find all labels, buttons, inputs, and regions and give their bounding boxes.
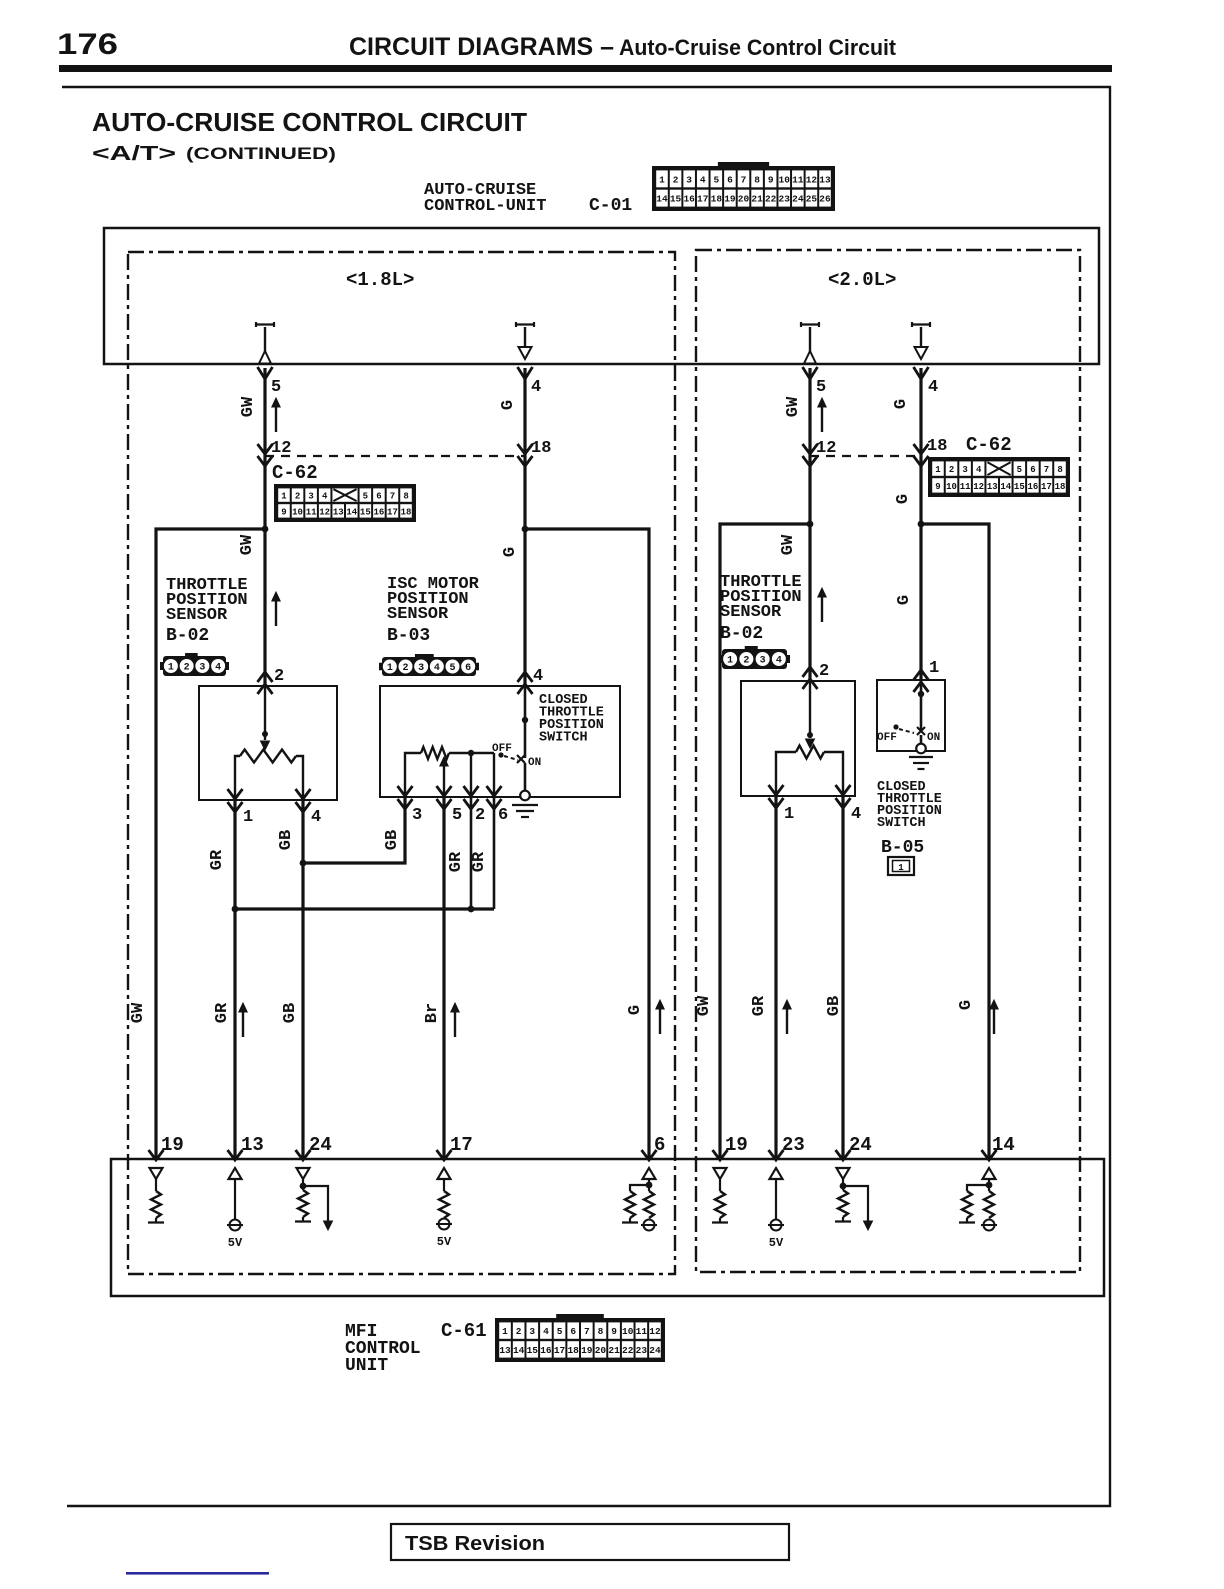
svg-text:18: 18 (711, 194, 723, 205)
ISC motor position sensor box (380, 686, 620, 797)
svg-text:14: 14 (346, 507, 357, 517)
svg-text:GW: GW (239, 396, 258, 417)
flow arrow on G lower (659, 1007, 661, 1034)
pin 2 chevrons ISC (464, 786, 479, 796)
wire GB from ISC pin 3 (303, 797, 405, 863)
svg-text:3: 3 (308, 492, 313, 502)
svg-text:GW: GW (238, 534, 257, 555)
switch blade dashed 2.0L (899, 729, 914, 733)
pin 4 chevrons (296, 789, 311, 799)
svg-text:17: 17 (1041, 482, 1052, 492)
svg-text:8: 8 (598, 1326, 604, 1337)
branch node GW 2.0L (807, 521, 814, 528)
svg-text:3: 3 (962, 465, 967, 475)
ground symbol 2.0L (909, 756, 933, 758)
svg-text:24: 24 (649, 1345, 661, 1356)
wire G 1.8L from pin 4 (523, 368, 526, 686)
svg-text:GR: GR (208, 849, 227, 870)
ISC wiper arrow (443, 766, 445, 797)
svg-text:GB: GB (825, 996, 844, 1016)
svg-text:5: 5 (557, 1326, 563, 1337)
svg-text:4: 4 (434, 663, 440, 674)
svg-text:G: G (957, 1000, 976, 1010)
pin 4 of C-01 (914, 367, 929, 379)
svg-text:G: G (895, 595, 914, 605)
wire branch GW far left 2.0L (720, 524, 810, 1160)
svg-text:5: 5 (449, 663, 455, 674)
svg-text:12: 12 (973, 482, 984, 492)
svg-text:GW: GW (129, 1002, 148, 1023)
svg-text:18: 18 (927, 437, 947, 456)
svg-text:23: 23 (636, 1345, 648, 1356)
MFI 5V source pin 13 1.8L (229, 1168, 242, 1179)
svg-text:2: 2 (673, 174, 679, 185)
wire G inside ISC box (524, 686, 527, 758)
svg-text:19: 19 (161, 1134, 184, 1156)
svg-text:9: 9 (281, 507, 286, 517)
svg-text:4: 4 (311, 808, 321, 827)
pin 4 chevrons of ISC (518, 672, 533, 682)
MFI pin 19 chevron (149, 1150, 164, 1160)
svg-text:GW: GW (695, 995, 714, 1016)
svg-text:12: 12 (649, 1326, 661, 1337)
svg-text:1: 1 (929, 659, 939, 678)
pin 18 chevrons (518, 444, 533, 454)
control unit internal stub at x=921 (912, 322, 930, 327)
svg-text:1: 1 (898, 863, 904, 873)
control unit internal stub at x=810 (801, 322, 819, 327)
svg-text:8: 8 (1057, 465, 1062, 475)
svg-text:5V: 5V (228, 1236, 243, 1250)
svg-text:9: 9 (935, 482, 940, 492)
dash-dot box 1.8L (128, 252, 675, 1274)
wire branch G to right (525, 529, 649, 1160)
MFI resistor and output pin 24 1.8L (297, 1168, 310, 1179)
svg-text:5: 5 (363, 492, 368, 502)
wire GW 1.8L from pin 5 (263, 368, 266, 686)
svg-text:1: 1 (935, 465, 941, 475)
svg-text:3: 3 (199, 663, 205, 674)
connector crossing C-62 dashed line 1.8L (265, 455, 525, 457)
svg-text:21: 21 (751, 194, 763, 205)
connector crossing C-62 dashed line 2.0L (810, 455, 921, 457)
junction dot pin2 lead (468, 750, 474, 756)
MFI pin 23 chevron 2.0L (769, 1150, 784, 1160)
branch node on G at y529 (522, 526, 529, 533)
svg-text:B-02: B-02 (166, 626, 209, 646)
svg-text:19: 19 (724, 194, 736, 205)
svg-text:16: 16 (373, 507, 384, 517)
connector C-62 1.8L (274, 484, 416, 522)
svg-text:16: 16 (683, 194, 695, 205)
svg-text:CIRCUIT DIAGRAMS –: CIRCUIT DIAGRAMS – (349, 33, 614, 61)
svg-text:7: 7 (1044, 465, 1049, 475)
wire Br from ISC pin 5 (442, 797, 445, 1160)
svg-text:4: 4 (700, 174, 706, 185)
wire G 2.0L from pin 4 (919, 368, 922, 680)
svg-text:C-01: C-01 (589, 196, 632, 216)
throttle position sensor box 2.0L (741, 681, 855, 796)
potentiometer resistor TPS 1.8L (240, 750, 296, 763)
potentiometer resistor TPS 2.0L (796, 746, 824, 759)
svg-text:24: 24 (309, 1134, 332, 1156)
svg-text:B-02: B-02 (720, 624, 763, 644)
ground circle (520, 791, 530, 801)
connector B-05 (888, 857, 914, 875)
svg-text:4: 4 (543, 1326, 549, 1337)
svg-text:3: 3 (418, 663, 424, 674)
potentiometer wiper TPS 1.8L (264, 686, 266, 740)
pin 2 chevrons B-02 2.0L (803, 667, 818, 677)
MFI pin 13 chevron (228, 1150, 243, 1160)
junction bus GR at y909 (235, 907, 494, 910)
wire G inside B-05 (920, 680, 923, 731)
svg-text:GW: GW (784, 396, 803, 417)
svg-text:B-03: B-03 (387, 626, 430, 646)
svg-text:11: 11 (792, 174, 804, 185)
svg-text:CONTROL-UNIT: CONTROL-UNIT (424, 197, 546, 216)
pin 5 chevrons (437, 786, 452, 796)
svg-text:13: 13 (241, 1134, 264, 1156)
junction dot B-05 (918, 691, 924, 697)
svg-text:2: 2 (516, 1326, 522, 1337)
ISC resistor (421, 747, 449, 759)
svg-text:13: 13 (987, 482, 998, 492)
svg-text:14: 14 (992, 1134, 1015, 1156)
svg-text:SWITCH: SWITCH (877, 816, 926, 831)
svg-text:16: 16 (1027, 482, 1038, 492)
svg-text:18: 18 (401, 507, 412, 517)
svg-text:Auto-Cruise Control Circuit: Auto-Cruise Control Circuit (619, 35, 897, 60)
MFI internal resistor pin 19 2.0L (714, 1168, 727, 1179)
svg-text:18: 18 (1055, 482, 1066, 492)
connector C-61 (495, 1318, 665, 1362)
pin 6 lead (493, 753, 495, 797)
connector B-03 (379, 663, 383, 671)
svg-text:12: 12 (806, 174, 818, 185)
svg-text:4: 4 (776, 656, 782, 667)
svg-text:23: 23 (782, 1134, 805, 1156)
svg-text:5V: 5V (769, 1236, 784, 1250)
wire GR from ISC pin 2 (470, 797, 473, 909)
svg-text:16: 16 (540, 1345, 552, 1356)
svg-text:4: 4 (531, 378, 541, 397)
blue scan mark (126, 1572, 269, 1575)
ground circle 2.0L (916, 744, 926, 754)
pin 18 chevrons 2.0L (914, 444, 929, 454)
connector C-62 2.0L (928, 457, 1070, 497)
svg-text:19: 19 (581, 1345, 593, 1356)
flow arrow on GW 2.0L (821, 405, 823, 432)
pin 1 chevrons B-05 (914, 670, 929, 680)
svg-text:GR: GR (750, 995, 769, 1016)
svg-text:15: 15 (360, 507, 371, 517)
page frame (62, 87, 1110, 1506)
switch off contact (498, 752, 503, 757)
svg-text:GR: GR (447, 851, 466, 872)
switch off contact 2.0L (893, 724, 898, 729)
svg-text:G: G (892, 399, 911, 409)
svg-text:2: 2 (819, 662, 829, 681)
svg-text:6: 6 (654, 1134, 665, 1156)
svg-text:17: 17 (697, 194, 709, 205)
svg-text:10: 10 (292, 507, 303, 517)
svg-text:5: 5 (1017, 465, 1022, 475)
svg-text:1: 1 (784, 805, 794, 824)
svg-text:3: 3 (529, 1326, 535, 1337)
connector C-01 (652, 166, 835, 211)
switch blade dashed (504, 756, 518, 760)
svg-text:14: 14 (656, 194, 668, 205)
svg-text:SENSOR: SENSOR (166, 606, 228, 625)
svg-text:13: 13 (333, 507, 344, 517)
wire to ground circle (524, 763, 527, 791)
pin 1 chevrons (228, 789, 243, 799)
svg-text:18: 18 (531, 439, 551, 458)
svg-text:2: 2 (475, 806, 485, 825)
svg-text:G: G (894, 494, 913, 504)
svg-text:5: 5 (452, 806, 462, 825)
wire branch G right 2.0L (921, 524, 989, 1160)
junction dot GR left (232, 906, 239, 913)
svg-text:C-61: C-61 (441, 1320, 487, 1342)
svg-text:5: 5 (713, 174, 719, 185)
MFI dual resistor pin 6 1.8L (643, 1168, 656, 1179)
MFI control unit box (111, 1159, 1104, 1296)
svg-text:4: 4 (533, 667, 543, 686)
svg-text:G: G (499, 400, 518, 410)
switch on contact X 2.0L (917, 727, 925, 735)
svg-text:4: 4 (215, 663, 221, 674)
svg-text:GR: GR (213, 1002, 232, 1023)
svg-text:<1.8L>: <1.8L> (346, 269, 414, 291)
svg-text:8: 8 (754, 174, 760, 185)
svg-text:1: 1 (168, 663, 174, 674)
svg-text:TSB Revision: TSB Revision (405, 1533, 545, 1555)
throttle position sensor box 1.8L (199, 686, 337, 800)
svg-text:9: 9 (768, 174, 774, 185)
pin 3 chevrons (398, 786, 413, 796)
svg-text:3: 3 (412, 806, 422, 825)
svg-text:1: 1 (727, 656, 733, 667)
svg-text:OFF: OFF (877, 732, 897, 744)
dash-dot box 2.0L (696, 250, 1080, 1272)
pin 4 chevrons 2.0L (836, 785, 851, 795)
svg-text:<2.0L>: <2.0L> (828, 269, 896, 291)
pin 5 of C-01 (258, 367, 273, 379)
svg-text:6: 6 (465, 663, 471, 674)
svg-text:8: 8 (403, 492, 408, 502)
flow arrow on GW 2.0L near sensor (821, 595, 823, 622)
svg-text:2: 2 (402, 663, 408, 674)
svg-text:14: 14 (1000, 482, 1011, 492)
svg-text:SENSOR: SENSOR (387, 605, 449, 624)
wire from ISC pin 6 (493, 797, 496, 909)
svg-text:2: 2 (949, 465, 954, 475)
svg-text:10: 10 (779, 174, 791, 185)
svg-text:17: 17 (554, 1345, 566, 1356)
svg-text:<A/T>: <A/T> (92, 143, 176, 165)
svg-text:SWITCH: SWITCH (539, 731, 588, 746)
MFI pin 17 chevron (437, 1150, 452, 1160)
svg-text:1: 1 (502, 1326, 508, 1337)
flow arrow on GW near sensor (275, 599, 277, 626)
svg-text:7: 7 (741, 174, 747, 185)
wire GB from TPS pin 4 2.0L (841, 796, 844, 1160)
MFI internal resistor pin 19 1.8L (150, 1168, 163, 1179)
potentiometer wiper TPS 2.0L (809, 681, 811, 738)
MFI pin 24 chevron (296, 1150, 311, 1160)
wire GR from TPS pin 1 (233, 800, 236, 1160)
svg-text:3: 3 (686, 174, 692, 185)
svg-text:21: 21 (608, 1345, 620, 1356)
svg-text:4: 4 (851, 805, 861, 824)
svg-text:17: 17 (450, 1134, 473, 1156)
svg-text:176: 176 (57, 28, 118, 61)
flow arrow GR 2.0L (786, 1007, 788, 1034)
MFI dual resistor pin 14 2.0L (983, 1168, 996, 1179)
TSB revision box (391, 1524, 789, 1560)
junction dot GB join (300, 860, 307, 867)
svg-text:22: 22 (622, 1345, 634, 1356)
svg-text:12: 12 (319, 507, 330, 517)
svg-text:G: G (626, 1005, 645, 1015)
svg-text:11: 11 (960, 482, 971, 492)
svg-text:25: 25 (806, 194, 818, 205)
svg-text:14: 14 (513, 1345, 525, 1356)
ground symbol 1.8L (512, 804, 538, 806)
control unit internal stub at x=525 (516, 322, 534, 327)
svg-text:2: 2 (295, 492, 300, 502)
svg-text:C-62: C-62 (272, 462, 318, 484)
svg-text:(CONTINUED): (CONTINUED) (186, 144, 336, 163)
svg-text:GB: GB (281, 1003, 300, 1023)
branch node on GW at y529 (262, 526, 269, 533)
pin 4 of C-01 (518, 367, 533, 379)
svg-text:9: 9 (611, 1326, 617, 1337)
svg-text:G: G (501, 547, 520, 557)
flow arrow G lower 2.0L (993, 1007, 995, 1034)
svg-text:UNIT: UNIT (345, 1356, 388, 1376)
svg-text:11: 11 (636, 1326, 648, 1337)
wire branch GW to far left (156, 529, 265, 1160)
header rule (59, 65, 1112, 72)
svg-text:15: 15 (1014, 482, 1025, 492)
flow arrow GR lower (242, 1010, 244, 1037)
svg-text:ON: ON (927, 732, 940, 744)
svg-text:6: 6 (570, 1326, 576, 1337)
svg-text:Br: Br (423, 1003, 442, 1023)
svg-text:17: 17 (387, 507, 398, 517)
auto-cruise control unit box (104, 228, 1099, 364)
svg-text:GW: GW (779, 534, 798, 555)
connector B-02 2.0L (719, 655, 723, 663)
svg-text:15: 15 (670, 194, 682, 205)
svg-text:AUTO-CRUISE CONTROL CIRCUIT: AUTO-CRUISE CONTROL CIRCUIT (92, 107, 527, 137)
svg-text:15: 15 (527, 1345, 539, 1356)
junction dot GR pin2 (468, 906, 475, 913)
svg-text:B-05: B-05 (881, 838, 924, 858)
svg-text:5V: 5V (437, 1235, 452, 1249)
MFI pin 19 chevron 2.0L (713, 1150, 728, 1160)
pin 5 of C-01 (803, 367, 818, 379)
svg-text:C-62: C-62 (966, 434, 1012, 456)
flow arrow Br lower (454, 1010, 456, 1037)
svg-text:6: 6 (727, 174, 733, 185)
MFI pin 6 chevron (642, 1150, 657, 1160)
switch on contact X (517, 755, 525, 763)
svg-text:4: 4 (976, 465, 982, 475)
svg-text:6: 6 (1030, 465, 1035, 475)
svg-text:10: 10 (946, 482, 957, 492)
svg-text:SENSOR: SENSOR (720, 603, 782, 622)
wire GW 2.0L from pin 5 (808, 368, 811, 681)
pin 2 chevrons of B-02 (258, 672, 273, 682)
pin 6 chevrons ISC (487, 786, 502, 796)
control unit internal stub at x=265 (256, 322, 274, 327)
svg-text:13: 13 (819, 174, 831, 185)
svg-text:4: 4 (928, 378, 938, 397)
svg-text:GB: GB (383, 830, 402, 850)
svg-text:2: 2 (184, 663, 190, 674)
MFI pin 14 chevron 2.0L (982, 1150, 997, 1160)
svg-text:6: 6 (498, 806, 508, 825)
svg-text:20: 20 (595, 1345, 607, 1356)
connector B-02 1.8L (160, 662, 164, 670)
wire GB from TPS pin 4 (301, 800, 304, 1160)
svg-text:ON: ON (528, 757, 541, 769)
svg-text:1: 1 (659, 174, 665, 185)
svg-text:5: 5 (816, 378, 826, 397)
flow arrow on GW (275, 405, 277, 432)
pin 12 chevrons 2.0L (803, 444, 818, 454)
svg-text:24: 24 (792, 194, 804, 205)
wire to ground circle 2.0L (920, 735, 923, 744)
closed throttle position switch box B-05 (877, 680, 945, 751)
MFI resistor 5V pin 17 1.8L (438, 1168, 451, 1179)
svg-text:GR: GR (470, 851, 489, 872)
pin 12 chevrons (258, 444, 273, 454)
MFI pin 24 chevron 2.0L (836, 1150, 851, 1160)
MFI 5V source pin 23 2.0L (770, 1168, 783, 1179)
svg-text:1: 1 (387, 663, 393, 674)
svg-text:26: 26 (819, 194, 831, 205)
svg-text:22: 22 (765, 194, 777, 205)
svg-text:4: 4 (322, 492, 328, 502)
svg-text:2: 2 (274, 667, 284, 686)
svg-text:7: 7 (584, 1326, 590, 1337)
branch node G 2.0L (918, 521, 925, 528)
MFI resistor and output pin 24 2.0L (837, 1168, 850, 1179)
svg-text:GB: GB (277, 830, 296, 850)
svg-text:5: 5 (271, 378, 281, 397)
svg-text:24: 24 (849, 1134, 872, 1156)
svg-text:18: 18 (567, 1345, 579, 1356)
svg-text:13: 13 (499, 1345, 511, 1356)
svg-text:10: 10 (622, 1326, 634, 1337)
svg-text:3: 3 (760, 656, 766, 667)
svg-text:19: 19 (725, 1134, 748, 1156)
svg-text:1: 1 (281, 492, 287, 502)
svg-text:1: 1 (243, 808, 253, 827)
svg-text:23: 23 (779, 194, 791, 205)
svg-text:6: 6 (376, 492, 381, 502)
svg-text:11: 11 (306, 507, 317, 517)
junction dot on switch wire (522, 717, 528, 723)
svg-text:2: 2 (743, 656, 749, 667)
pin 1 chevrons 2.0L (769, 785, 784, 795)
svg-text:20: 20 (738, 194, 750, 205)
